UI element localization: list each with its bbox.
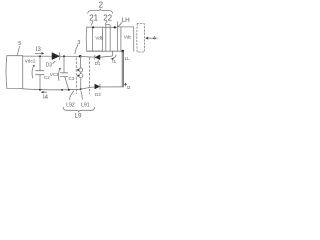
label LL bbox=[125, 56, 130, 61]
wire top rail bbox=[23, 55, 81, 57]
junction dot C2 bottom bbox=[39, 89, 41, 91]
label L9 bbox=[75, 113, 83, 120]
leader L92 bbox=[69, 91, 73, 99]
DC source box 22 bbox=[117, 22, 133, 51]
label 2 bbox=[99, 0, 103, 9]
leader 22 bbox=[105, 21, 107, 24]
converter narrow box bbox=[106, 25, 110, 52]
current arrow I3 bbox=[36, 47, 42, 53]
capacitor C2 bbox=[39, 56, 41, 70]
arrow 4 bbox=[146, 37, 158, 39]
svg-text:L92: L92 bbox=[66, 102, 75, 108]
voltage label VC3 bbox=[50, 72, 59, 77]
svg-text:L91: L91 bbox=[81, 102, 90, 108]
svg-text:D3: D3 bbox=[46, 63, 53, 69]
junction dot lamp top bbox=[122, 50, 125, 53]
label 21 bbox=[89, 13, 98, 22]
wire top link bbox=[103, 26, 118, 28]
svg-text:D2: D2 bbox=[95, 92, 101, 97]
wire socket branch vertical bbox=[79, 56, 81, 68]
svg-text:Vdc2: Vdc2 bbox=[25, 58, 36, 64]
svg-text:21: 21 bbox=[89, 13, 98, 22]
terminal circle lower bbox=[79, 74, 83, 78]
lead wire label L91 bbox=[81, 102, 90, 108]
overbrace 2 bbox=[88, 9, 113, 13]
svg-text:VC3: VC3 bbox=[50, 72, 59, 77]
junction dot socket bottom bbox=[80, 88, 82, 90]
underbrace L9 bbox=[63, 107, 95, 112]
voltage arrow VC3 bbox=[58, 69, 60, 81]
wire rail B (box bottoms) bbox=[87, 50, 123, 52]
diode D1 bbox=[94, 55, 96, 59]
voltage label Vdb bbox=[95, 36, 103, 41]
lamp LL electrode right bbox=[122, 52, 124, 87]
capacitor C3 bbox=[63, 56, 65, 73]
svg-text:I4: I4 bbox=[43, 95, 49, 101]
svg-text:LH: LH bbox=[122, 17, 131, 24]
dashed boundary left bbox=[75, 58, 77, 94]
junction dot top link bbox=[114, 26, 116, 28]
voltage label Vdc2 bbox=[25, 58, 36, 64]
label 5 bbox=[18, 41, 21, 47]
svg-text:I2: I2 bbox=[127, 85, 131, 90]
svg-text:4: 4 bbox=[153, 36, 156, 42]
dashed box 4 bbox=[137, 24, 145, 52]
terminal circle upper bbox=[79, 68, 83, 72]
leader 3 bbox=[75, 45, 78, 54]
svg-text:L9: L9 bbox=[75, 113, 83, 120]
voltage label Vdc bbox=[124, 34, 132, 39]
junction dot C3 bottom bbox=[61, 89, 63, 91]
lamp LL electrode left bbox=[121, 51, 123, 86]
internal plate box 21 bbox=[92, 27, 94, 51]
junction dot node T bbox=[79, 55, 82, 58]
svg-text:I3: I3 bbox=[36, 47, 42, 53]
wire D1 branch bbox=[80, 55, 94, 58]
svg-text:I1: I1 bbox=[112, 59, 116, 64]
diode D2 bbox=[95, 84, 100, 89]
current arrow I4 bbox=[41, 91, 46, 93]
label LH bbox=[122, 17, 131, 24]
svg-text:Vdc: Vdc bbox=[124, 34, 132, 39]
junction dot box 21 top bbox=[92, 26, 94, 28]
svg-text:C3: C3 bbox=[69, 76, 75, 81]
junction dot C3 top bbox=[63, 55, 65, 57]
svg-text:LL: LL bbox=[125, 56, 130, 61]
internal plate box 22 bbox=[120, 27, 122, 51]
svg-text:Vdb: Vdb bbox=[95, 36, 103, 41]
current arrow I2 bbox=[125, 83, 127, 86]
label 4 bbox=[153, 36, 156, 42]
leader for label 5 bbox=[17, 46, 19, 55]
leader L91 bbox=[81, 91, 83, 99]
leader 21 bbox=[91, 21, 93, 25]
svg-text:2: 2 bbox=[99, 0, 103, 9]
svg-text:22: 22 bbox=[103, 13, 112, 22]
dashed boundary right bbox=[89, 58, 91, 94]
leader LH bbox=[118, 23, 122, 27]
DC input source box 5 bbox=[6, 56, 23, 89]
junction dot C2 top bbox=[39, 55, 41, 57]
wire bottom rail left bbox=[23, 89, 81, 90]
lead wire label L92 bbox=[66, 102, 75, 108]
label 3 bbox=[77, 40, 80, 46]
current arrow I1 bbox=[112, 55, 116, 58]
DC source box 21 bbox=[86, 27, 102, 51]
diode D3 bbox=[52, 53, 59, 60]
label 22 bbox=[103, 13, 112, 22]
voltage arrow Vdc2 bbox=[32, 66, 34, 78]
wire bottom right rail bbox=[100, 86, 123, 88]
